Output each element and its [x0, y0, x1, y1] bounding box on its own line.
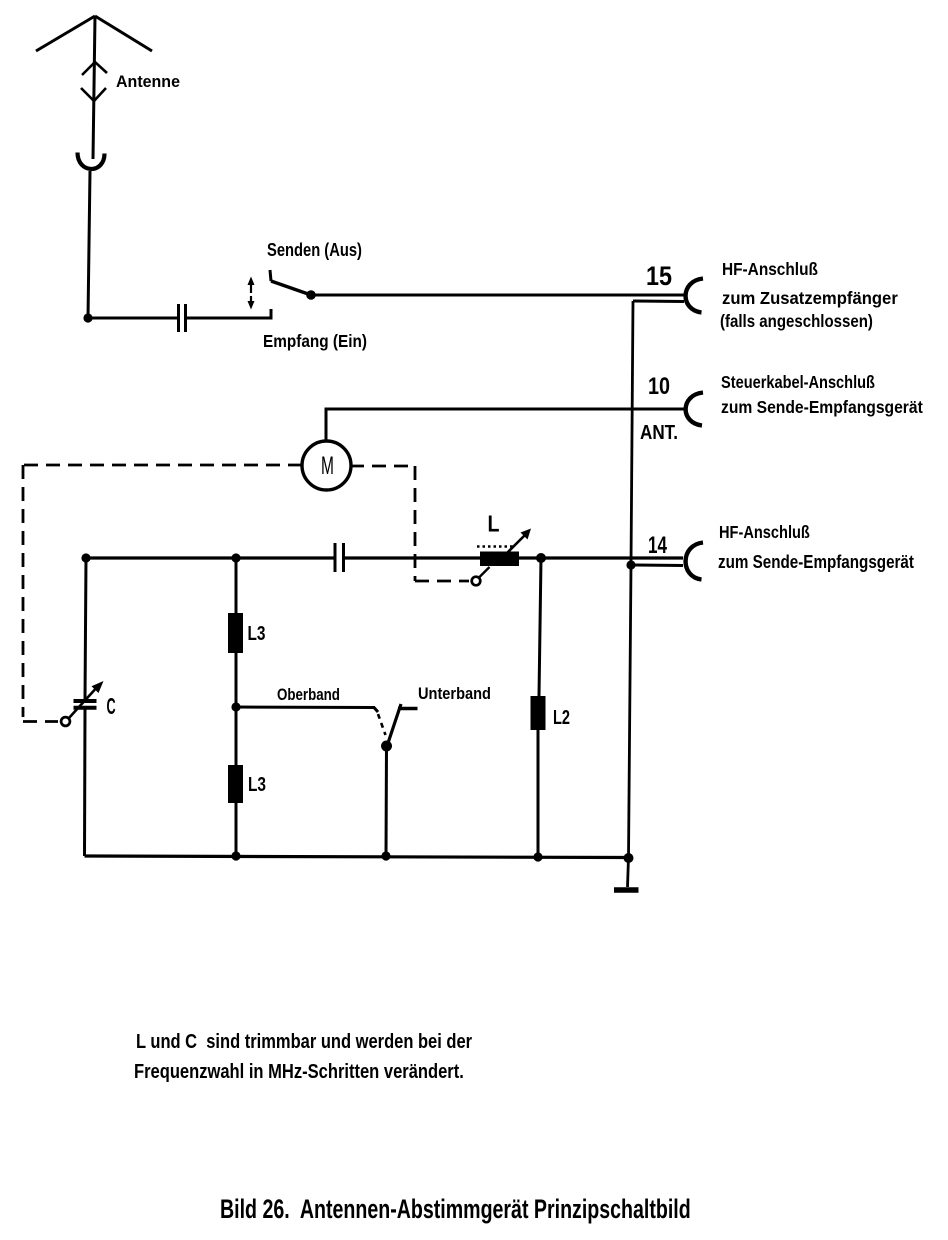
wire C1 to switch lower contact: [187, 309, 271, 318]
connector 14 prong: [631, 564, 683, 568]
wire L3 lower to rail: [235, 803, 238, 856]
wire L3 upper branch: [235, 558, 238, 613]
svg-text:L3: L3: [248, 773, 266, 795]
wire bushing to node A: [88, 171, 90, 318]
variable inductor L body: [480, 552, 519, 567]
note text line 1: [136, 1029, 472, 1052]
label L3 lower: [248, 773, 266, 795]
junction dot bus / connector 14 prong: [626, 560, 635, 569]
variable capacitor C plates: [74, 701, 97, 708]
band switch dashed throw: [378, 714, 386, 735]
label L2: [553, 706, 570, 729]
label HF-Anschluss block 1: [722, 259, 818, 279]
inductor L trim arrow: [506, 529, 531, 555]
connector 15 jack arc: [686, 279, 703, 313]
wire C2 to inductor L: [344, 556, 480, 559]
svg-text:Bild 26. Antennen-Abstimmgerä: Bild 26. Antennen-Abstimmgerät Prinzipsc…: [220, 1194, 691, 1224]
junction dot L2 branch: [536, 553, 546, 563]
svg-text:14: 14: [648, 532, 667, 559]
linkage link to L: [479, 567, 490, 578]
svg-text:L: L: [488, 511, 500, 537]
dashed linkage motor to capacitor C: [23, 465, 302, 722]
wire antenna vertical top: [93, 16, 95, 159]
linkage end circle (L side): [472, 577, 481, 586]
inductor L3 lower body: [228, 765, 243, 803]
antenna double-arrow chevrons: [81, 62, 107, 101]
wire main to C top plate: [85, 558, 86, 700]
ground stub: [628, 857, 629, 887]
motor M circle: [302, 441, 351, 490]
capacitor C2 (series): [335, 543, 344, 572]
junction dot L3 branch: [231, 553, 240, 562]
inductor L dotted core line: [477, 545, 513, 548]
bus wire (connector 15 down to ground): [629, 301, 634, 857]
wire L to connector 14: [519, 556, 683, 559]
capacitor C trim arrow: [69, 681, 104, 719]
label 10: [648, 372, 670, 399]
label L: [488, 511, 500, 537]
wire L2 to rail: [537, 730, 540, 857]
junction dot left (main wire / antenna line): [81, 553, 90, 562]
rail junction dot band switch: [381, 851, 390, 860]
wire motor to connector 10: [326, 409, 684, 441]
svg-text:Oberband: Oberband: [277, 686, 340, 705]
rail junction dot bus: [624, 853, 634, 863]
switch motion arrows: [248, 277, 255, 310]
wire L3 upper to node B: [235, 653, 238, 707]
main wire node A2 to capacitor C2: [86, 556, 334, 559]
label Antenne: [116, 73, 180, 92]
svg-text:L3: L3: [248, 622, 266, 644]
svg-text:ANT.: ANT.: [640, 421, 678, 444]
wire node B to L3 lower: [235, 707, 238, 765]
Oberband contact wire: [236, 707, 378, 712]
label HF-Anschluss block 2: [719, 523, 810, 543]
svg-text:C: C: [107, 693, 116, 719]
svg-text:zum Sende-Empfangsgerät: zum Sende-Empfangsgerät: [718, 552, 914, 573]
inductor L3 upper body: [228, 613, 243, 653]
svg-text:HF-Anschluß: HF-Anschluß: [719, 523, 810, 543]
label 15: [646, 261, 672, 291]
motor M letter: [321, 452, 334, 480]
caption Bild 26: [220, 1194, 691, 1224]
svg-text:zum Zusatzempfänger: zum Zusatzempfänger: [722, 287, 898, 308]
svg-text:zum Sende-Empfangsgerät: zum Sende-Empfangsgerät: [721, 397, 923, 417]
inductor L2 body: [531, 696, 546, 730]
band switch arm: [387, 704, 401, 746]
label Oberband: [277, 686, 340, 705]
wire L2 branch: [539, 558, 541, 696]
switch S1 arm: [271, 281, 311, 295]
label Unterband: [418, 685, 491, 703]
rail junction dot L2: [533, 852, 542, 861]
svg-text:M: M: [321, 452, 334, 480]
wire node A to capacitor C1: [88, 317, 177, 320]
connector 15 prong: [633, 300, 684, 304]
node A junction dot: [83, 313, 92, 322]
label L3 upper: [248, 622, 266, 644]
feedthrough bushing: [78, 153, 105, 169]
band switch pivot dot: [381, 741, 392, 752]
wire C bottom plate to rail: [83, 709, 87, 856]
connector 10 jack arc: [686, 393, 703, 426]
svg-text:Steuerkabel-Anschluß: Steuerkabel-Anschluß: [721, 373, 875, 393]
wire switch to connector 15: [311, 294, 684, 297]
dashed linkage motor to inductor L: [350, 466, 469, 581]
svg-text:10: 10: [648, 372, 670, 399]
svg-text:Empfang (Ein): Empfang (Ein): [263, 331, 367, 351]
rail junction dot L3: [231, 851, 240, 860]
wire band switch to rail: [385, 746, 389, 856]
label C: [107, 693, 116, 719]
svg-text:HF-Anschluß: HF-Anschluß: [722, 259, 818, 279]
svg-text:Unterband: Unterband: [418, 685, 491, 703]
connector 14 jack arc: [686, 543, 703, 580]
label Steuerkabel block: [721, 373, 875, 393]
svg-text:L2: L2: [553, 706, 570, 729]
note text line 2: [134, 1059, 464, 1082]
linkage end circle (C side): [61, 717, 70, 726]
switch S1 pivot dot: [306, 290, 316, 300]
svg-text:Antenne: Antenne: [116, 73, 180, 92]
label Senden (Aus): [267, 241, 362, 261]
label 14: [648, 532, 667, 559]
svg-text:Senden (Aus): Senden (Aus): [267, 241, 362, 261]
svg-text:(falls angeschlossen): (falls angeschlossen): [720, 311, 873, 332]
svg-text:15: 15: [646, 261, 672, 291]
ground symbol: [614, 887, 639, 893]
Unterband contact: [398, 707, 418, 710]
antenna symbol: [36, 16, 152, 51]
bottom rail wire: [85, 856, 629, 858]
label Empfang (Ein): [263, 331, 367, 351]
capacitor C1 (coupling): [179, 304, 186, 332]
svg-text:L und C sind trimmbar und wer: L und C sind trimmbar und werden bei der: [136, 1029, 472, 1052]
switch S1 upper contact: [270, 270, 271, 281]
label ANT.: [640, 421, 678, 444]
node B junction dot: [231, 702, 240, 711]
svg-text:Frequenzwahl in MHz-Schritten: Frequenzwahl in MHz-Schritten verändert.: [134, 1059, 464, 1082]
